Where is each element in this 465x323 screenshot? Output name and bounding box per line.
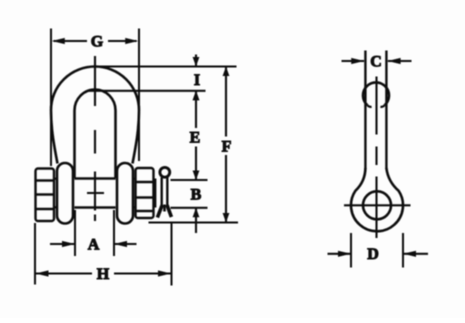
svg-text:G: G <box>91 34 104 51</box>
svg-text:F: F <box>222 139 232 156</box>
dim H extension lines <box>35 223 172 286</box>
centerline vertical (left view) <box>94 56 96 221</box>
cotter pin spread ends <box>157 205 171 218</box>
crosshair horizontal <box>344 204 411 206</box>
dim E line with arrows <box>195 91 197 180</box>
pin hole circle <box>363 191 391 219</box>
centerline cross dash at pin <box>87 192 104 194</box>
bottom reference baseline (F bottom) <box>149 221 239 223</box>
hex nut <box>136 168 154 218</box>
svg-text:H: H <box>97 266 110 283</box>
dim D arrows <box>328 253 429 255</box>
dim C arrows <box>342 60 412 62</box>
bow cross-section circle (open at bottom) <box>363 82 389 105</box>
svg-text:I: I <box>194 72 200 89</box>
dim G line and arrows <box>54 40 137 42</box>
svg-text:E: E <box>190 130 201 147</box>
hex bolt head <box>36 169 55 222</box>
bolt edges between head and left ear <box>54 179 58 208</box>
centerline vertical (right view) <box>375 77 377 239</box>
dim I bottom reference line (inner bow top) <box>88 90 206 92</box>
pin side view eye outline <box>351 168 403 231</box>
svg-text:A: A <box>88 237 100 254</box>
dim I top reference line (bow top) <box>93 65 237 67</box>
dim F line with arrows <box>225 67 227 223</box>
pin side view shank <box>365 51 386 170</box>
cotter pin legs <box>162 178 168 207</box>
cotter pin ring <box>160 167 170 177</box>
bolt edges between right ear and nut <box>133 179 137 208</box>
svg-text:C: C <box>370 53 382 70</box>
svg-text:D: D <box>367 246 379 263</box>
dim A arrows <box>50 243 137 245</box>
bolt shank edges in throat <box>75 179 116 208</box>
dim H line and arrows <box>36 272 171 274</box>
bolt tip protruding past nut <box>153 179 157 208</box>
shackle bow inner slot <box>75 90 116 179</box>
dim D extension lines <box>351 233 403 268</box>
dim B bottom arrow <box>195 208 197 233</box>
left ear (eye) <box>57 163 73 224</box>
dim I arrows <box>195 55 197 67</box>
right ear (eye) <box>117 163 133 224</box>
svg-text:B: B <box>191 187 202 204</box>
dim B reference lines <box>171 180 208 208</box>
dim G extension lines <box>51 29 139 167</box>
shackle bow outer profile <box>51 67 139 164</box>
dim A extension lines <box>75 210 114 256</box>
